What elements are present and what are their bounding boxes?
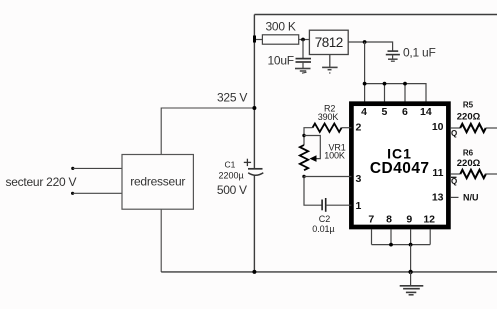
wire 300K right lead <box>299 39 310 41</box>
svg-text:C2: C2 <box>319 214 330 224</box>
svg-text:1: 1 <box>356 200 362 212</box>
svg-text:8: 8 <box>386 213 392 225</box>
terminal dot lower <box>71 192 74 195</box>
svg-text:11: 11 <box>432 167 443 179</box>
svg-text:2200µ: 2200µ <box>219 171 244 181</box>
svg-text:4: 4 <box>361 106 367 118</box>
wire Vdd down to pin 4 <box>364 42 366 102</box>
wire pin 9 stub <box>410 229 412 244</box>
svg-text:R5: R5 <box>463 101 474 110</box>
svg-text:500 V: 500 V <box>217 183 247 197</box>
capacitor C2 <box>322 198 326 212</box>
svg-text:N/U: N/U <box>463 193 479 203</box>
wire terminal upper <box>73 167 122 169</box>
wire 325V horizontal from redresseur <box>161 108 254 155</box>
svg-text:9: 9 <box>406 213 412 225</box>
wire pins 4-5-6-14 feed <box>365 84 426 102</box>
svg-text:100K: 100K <box>324 151 345 161</box>
wire R6 out <box>485 173 497 175</box>
svg-text:10: 10 <box>432 121 444 133</box>
capacitor 10uF <box>296 40 312 69</box>
ground under 0.1uF <box>388 59 398 61</box>
wire VR1 wiper loop <box>304 136 320 159</box>
ground under 7812 <box>322 67 338 73</box>
wire pin 8 stub <box>390 229 392 244</box>
wire redresseur bottom to bus <box>160 209 162 272</box>
svg-text:R6: R6 <box>463 149 474 158</box>
wire terminal lower <box>73 192 122 194</box>
terminal dot upper <box>71 167 74 170</box>
node pin6 dot <box>403 82 407 86</box>
ground main <box>400 286 424 295</box>
svg-text:7812: 7812 <box>315 35 343 50</box>
wire VR1 bottom to pin 3 <box>304 176 351 178</box>
wire 7812 ground lead <box>329 55 331 68</box>
node pin5 dot <box>383 82 387 86</box>
wire pin 5 stub <box>384 84 386 102</box>
wire pin 10 lead <box>451 127 461 129</box>
svg-text:3: 3 <box>356 173 362 185</box>
node pin4 dot <box>363 82 367 86</box>
resistor R6 zigzag <box>460 170 486 178</box>
rectifier box redresseur <box>122 155 193 210</box>
node VR1 bottom dot <box>302 175 305 178</box>
svg-text:secteur 220 V: secteur 220 V <box>6 175 77 189</box>
svg-text:Q: Q <box>451 177 457 186</box>
svg-text:300 K: 300 K <box>266 20 296 34</box>
svg-text:2: 2 <box>356 122 362 134</box>
node 7812 input dot <box>301 38 305 42</box>
svg-text:220Ω: 220Ω <box>457 158 481 169</box>
svg-text:0,1 uF: 0,1 uF <box>403 45 436 59</box>
svg-text:14: 14 <box>420 106 432 118</box>
node 300K tap dot <box>253 36 256 43</box>
wire bottom pins connector <box>372 244 431 246</box>
wire C2 to pin 1 <box>326 204 352 206</box>
node VR1 top dot <box>302 134 305 137</box>
svg-text:5: 5 <box>381 106 387 118</box>
svg-text:CD4047: CD4047 <box>370 160 430 177</box>
resistor R2 zigzag <box>313 123 342 131</box>
resistor R5 zigzag <box>460 124 486 132</box>
svg-text:390K: 390K <box>318 112 339 122</box>
wire pin9 node to bus <box>410 245 412 272</box>
svg-text:13: 13 <box>432 191 444 203</box>
wire pin 13 stub <box>451 196 459 198</box>
potentiometer VR1 zigzag <box>300 145 308 170</box>
svg-text:Q: Q <box>451 129 457 138</box>
wire bottom ground bus <box>161 271 497 273</box>
wire main vertical 325V rail <box>253 15 255 272</box>
node bus-ground dot <box>408 270 412 274</box>
wire R2 right lead to pin 2 <box>342 127 352 129</box>
node pin8 dot <box>389 243 393 247</box>
node C1 bus dot <box>252 270 256 274</box>
wire pin 6 stub <box>404 84 406 102</box>
svg-text:10uF: 10uF <box>268 54 294 68</box>
svg-text:C1: C1 <box>225 159 236 169</box>
wire 300K left lead <box>254 39 262 41</box>
wire ground lead <box>410 272 412 286</box>
wire pin 12 stub <box>429 229 431 244</box>
wire VR1 bottom down to C2 <box>304 177 322 206</box>
wire 7812 output <box>348 42 392 51</box>
regulator U2 7812 <box>309 30 348 54</box>
svg-text:6: 6 <box>402 106 408 118</box>
wire pin 11 lead <box>451 173 461 175</box>
node 325V dot <box>252 106 256 110</box>
capacitor C1 <box>244 159 263 176</box>
op IC1 CD4047 box <box>351 104 448 227</box>
wire pin 7 stub <box>371 229 373 244</box>
svg-text:0.01µ: 0.01µ <box>312 224 334 234</box>
ground under 10uF <box>295 69 311 74</box>
wire top bus <box>254 14 497 16</box>
node pin9 dot <box>409 243 413 247</box>
node Vdd dot <box>363 40 367 44</box>
wire R2 left lead <box>304 128 313 145</box>
svg-text:redresseur: redresseur <box>130 175 185 189</box>
svg-text:325 V: 325 V <box>217 91 247 105</box>
VR1 wiper arrow <box>310 155 317 162</box>
wire R5 out <box>486 127 497 129</box>
resistor R 300K body <box>262 35 298 44</box>
svg-text:220Ω: 220Ω <box>457 112 481 123</box>
capacitor 0.1uF <box>386 51 400 59</box>
svg-text:7: 7 <box>368 213 374 225</box>
svg-text:12: 12 <box>423 213 435 225</box>
